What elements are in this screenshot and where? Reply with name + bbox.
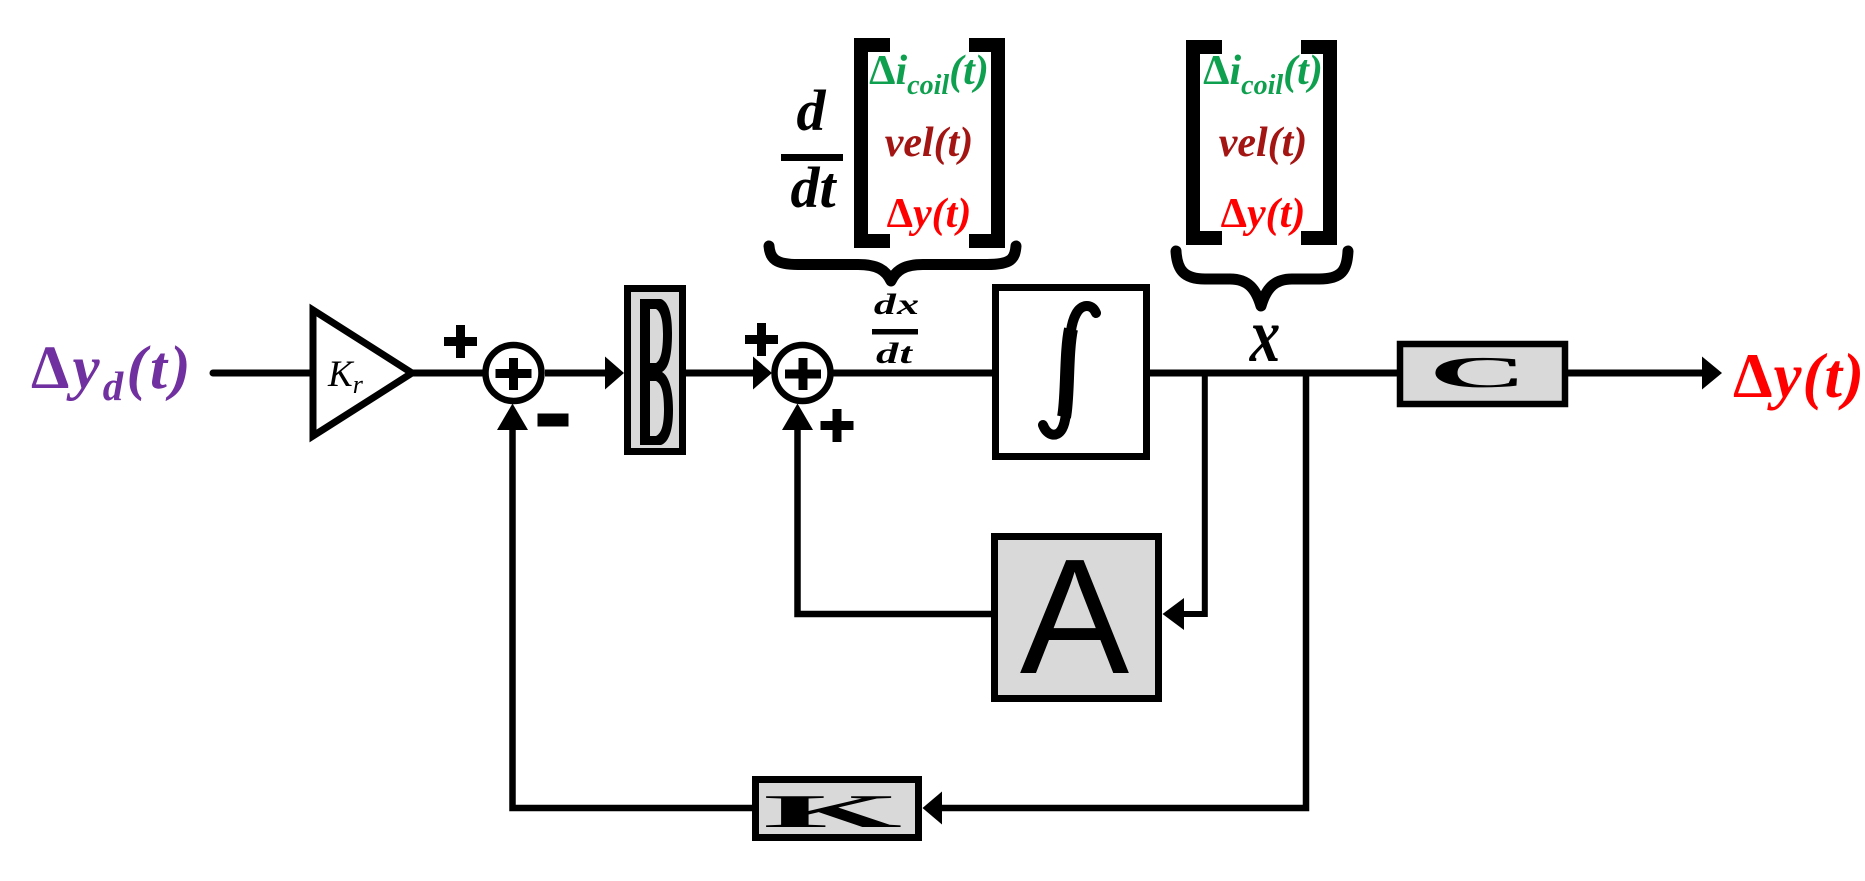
svg-text:dt: dt: [876, 337, 914, 370]
wire gain to sum1: [412, 370, 486, 377]
right matrix right bracket: [1301, 40, 1337, 245]
svg-text:Δy(t): Δy(t): [1221, 191, 1306, 237]
wire sum2 to integrator: [833, 370, 996, 377]
right matrix left bracket: [1186, 40, 1222, 245]
plus sign sum2 feedback: [821, 409, 854, 442]
d/dt operator label: [781, 78, 843, 220]
wire block A to sum2 riser with arrowhead: [798, 420, 992, 614]
left underbrace: [769, 246, 1016, 281]
wire block B to sum2 with arrowhead: [686, 370, 755, 377]
gain Kr triangle: [313, 310, 412, 436]
node input label Δy_d(t): [31, 335, 194, 409]
minus sign sum1 feedback: [538, 414, 569, 427]
block B: [628, 289, 683, 452]
svg-text:dt: dt: [790, 155, 837, 220]
wire sum1 to block B with arrowhead: [545, 370, 607, 377]
plus sign sum1 input: [444, 325, 477, 358]
svg-text:vel(t): vel(t): [885, 120, 974, 166]
svg-text:C: C: [1429, 348, 1528, 397]
wire integrator to block C: [1146, 370, 1400, 377]
svg-text:Δy(t): Δy(t): [1733, 341, 1865, 411]
left matrix left bracket: [854, 38, 890, 248]
svg-text:dx: dx: [874, 289, 920, 321]
svg-text:vel(t): vel(t): [1219, 120, 1308, 166]
integral sign: [1043, 306, 1096, 435]
wire riser from x-line down to block A: [1184, 373, 1205, 614]
wire riser from x-line down to block K: [940, 373, 1306, 808]
svg-text:A: A: [1020, 525, 1130, 708]
node label dx/dt: [872, 289, 920, 370]
integrator block: [996, 288, 1147, 457]
block K: [756, 780, 919, 838]
block A: [995, 537, 1159, 699]
block C: [1400, 344, 1565, 404]
left matrix right bracket: [969, 38, 1005, 248]
summing junction S1: [486, 345, 542, 401]
wire block K to sum1 riser with arrowhead: [513, 420, 753, 808]
svg-text:d: d: [797, 78, 827, 143]
svg-text:K: K: [763, 786, 902, 838]
plus sign sum2 input: [745, 323, 778, 356]
svg-text:Δy(t): Δy(t): [887, 191, 972, 237]
wire block C to output with arrowhead: [1565, 370, 1704, 377]
node label x: [1249, 293, 1280, 378]
right underbrace: [1176, 251, 1348, 306]
summing junction S2: [775, 345, 831, 401]
wire input to gain: [213, 370, 313, 377]
